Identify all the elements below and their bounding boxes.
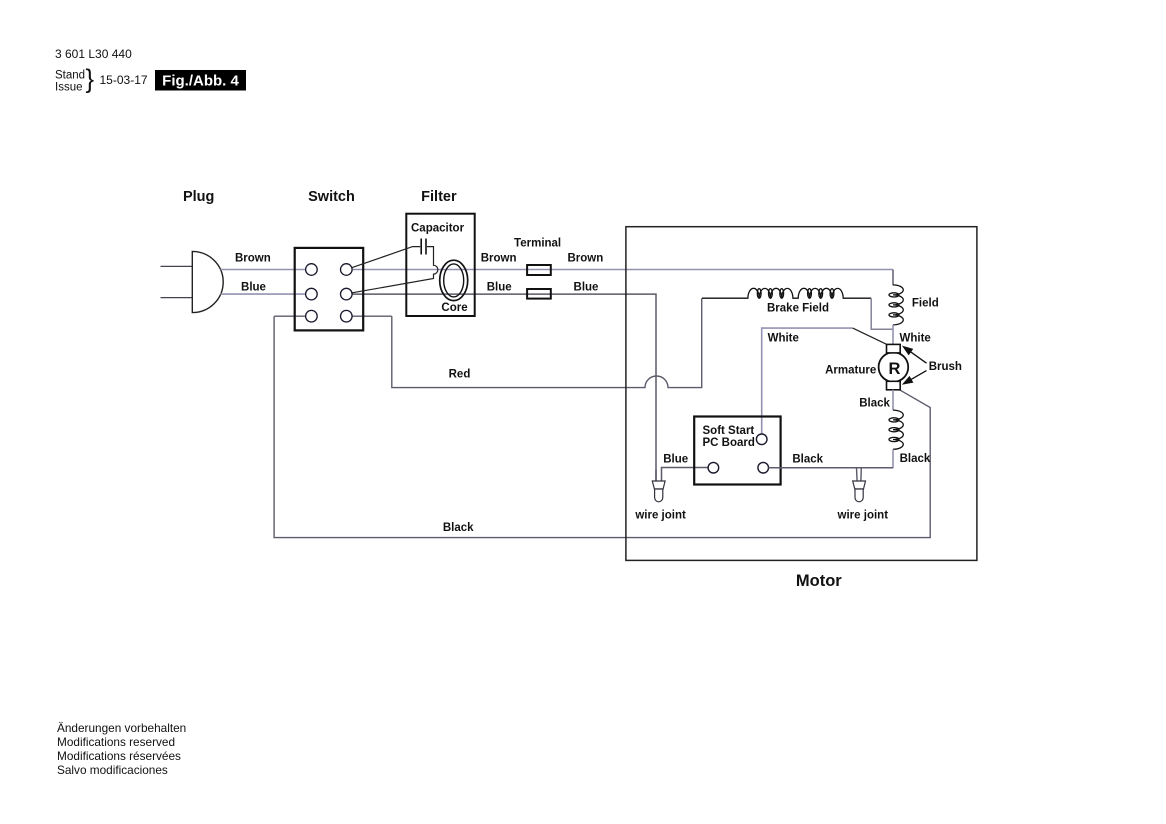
wire brown plug to switch bbox=[221, 269, 306, 271]
capacitor plates bbox=[420, 239, 422, 255]
plug prong bottom bbox=[161, 297, 193, 299]
svg-text:Black: Black bbox=[792, 453, 823, 465]
wire lower coil to black wire bbox=[892, 449, 894, 468]
terminal rect top bbox=[527, 265, 551, 275]
svg-text:Stand: Stand bbox=[55, 70, 85, 82]
wire blue branch to pc board bbox=[662, 468, 709, 482]
svg-text:Blue: Blue bbox=[487, 281, 512, 293]
wire switch row3 left bbox=[274, 315, 306, 317]
svg-text:Plug: Plug bbox=[183, 189, 214, 205]
brush rect bottom bbox=[887, 381, 901, 390]
svg-text:wire joint: wire joint bbox=[837, 509, 889, 521]
wire white diagonal to brush bbox=[853, 328, 887, 344]
field coil bbox=[889, 285, 903, 325]
svg-text:Brown: Brown bbox=[481, 253, 517, 265]
pc board pins bbox=[708, 434, 768, 473]
wire brown drop to field coil bbox=[892, 270, 894, 286]
svg-text:Black: Black bbox=[900, 453, 931, 465]
wire joint 1 bbox=[652, 481, 665, 502]
svg-text:Motor: Motor bbox=[796, 572, 842, 590]
wire switch row3 right bbox=[352, 315, 392, 317]
armature circle bbox=[879, 352, 909, 382]
svg-text:Brown: Brown bbox=[235, 253, 271, 265]
wire blue switch to motor descent bbox=[352, 294, 656, 481]
wire joint 1 stubs bbox=[655, 470, 657, 484]
terminal rect bottom bbox=[527, 289, 551, 299]
wire blue plug to switch bbox=[221, 293, 306, 295]
header part number bbox=[55, 47, 132, 61]
wire black pc to coil bbox=[769, 467, 894, 469]
soft start pc board bbox=[694, 417, 780, 485]
svg-text:Brush: Brush bbox=[929, 361, 962, 373]
svg-text:Terminal: Terminal bbox=[514, 238, 561, 250]
wire brown switch to motor bbox=[352, 269, 893, 271]
svg-text:Switch: Switch bbox=[308, 189, 355, 205]
svg-text:Modifications reserved: Modifications reserved bbox=[57, 735, 175, 749]
svg-text:PC Board: PC Board bbox=[703, 437, 755, 449]
wire black long bottom bbox=[274, 316, 930, 537]
wire joint 2 bbox=[853, 481, 866, 502]
wire brush to lower coil bbox=[892, 390, 894, 410]
capacitor lead top diagonal bbox=[352, 247, 420, 268]
svg-text:Blue: Blue bbox=[241, 281, 266, 293]
svg-text:wire joint: wire joint bbox=[634, 509, 686, 521]
svg-text:Salvo modificaciones: Salvo modificaciones bbox=[57, 763, 168, 777]
brush arrow bottom bbox=[911, 371, 927, 380]
brush arrow top bbox=[904, 347, 927, 384]
plug prong top bbox=[161, 265, 193, 267]
footer notices bbox=[57, 721, 186, 777]
svg-text:Issue: Issue bbox=[55, 82, 83, 94]
svg-text:White: White bbox=[768, 332, 799, 344]
svg-text:Black: Black bbox=[443, 522, 474, 534]
svg-text:Brake Field: Brake Field bbox=[767, 303, 829, 315]
svg-text:Soft Start: Soft Start bbox=[703, 425, 755, 437]
svg-text:Armature: Armature bbox=[825, 365, 876, 377]
plug body bbox=[192, 251, 223, 312]
svg-text:Capacitor: Capacitor bbox=[411, 223, 465, 235]
brush rect top bbox=[887, 344, 901, 353]
header stand/issue block bbox=[55, 66, 148, 94]
svg-text:R: R bbox=[888, 360, 900, 378]
Fig./Abb. 4 badge bbox=[155, 70, 246, 91]
svg-text:Core: Core bbox=[441, 302, 467, 314]
svg-text:Fig./Abb. 4: Fig./Abb. 4 bbox=[162, 73, 239, 90]
svg-text:Red: Red bbox=[449, 368, 471, 380]
brake field connector to field bottom bbox=[871, 298, 893, 329]
switch pin circles bbox=[306, 264, 353, 322]
wire white field to brush bbox=[892, 325, 894, 345]
svg-text:Field: Field bbox=[912, 298, 939, 310]
svg-text:Blue: Blue bbox=[574, 281, 599, 293]
svg-text:Black: Black bbox=[859, 398, 890, 410]
wire joint 2 stubs bbox=[857, 468, 862, 484]
svg-text:15-03-17: 15-03-17 bbox=[100, 73, 148, 87]
filter box bbox=[406, 214, 474, 316]
wire red bbox=[392, 298, 702, 387]
svg-text:Brown: Brown bbox=[568, 253, 604, 265]
svg-text:Filter: Filter bbox=[421, 189, 457, 205]
brake field coil bbox=[702, 288, 871, 298]
svg-text:3 601 L30 440: 3 601 L30 440 bbox=[55, 47, 132, 61]
svg-text:Modifications réservées: Modifications réservées bbox=[57, 749, 181, 763]
svg-text:White: White bbox=[900, 332, 931, 344]
switch box bbox=[295, 248, 364, 331]
capacitor lead bottom with hop bbox=[352, 247, 438, 293]
svg-text:}: } bbox=[86, 66, 95, 94]
svg-text:Änderungen vorbehalten: Änderungen vorbehalten bbox=[57, 721, 186, 735]
wire white horizontal + vertical bbox=[762, 328, 853, 434]
svg-text:Blue: Blue bbox=[663, 453, 688, 465]
motor box bbox=[626, 227, 977, 561]
core toroid bbox=[440, 260, 468, 300]
lower field coil bbox=[889, 410, 903, 449]
